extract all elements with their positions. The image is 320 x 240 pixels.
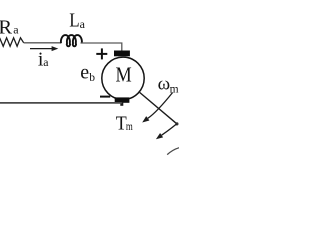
current arrow ia (30, 48, 52, 50)
torque Tm arrow (curved) (162, 124, 177, 135)
terminal stub to bottom wire (120, 102, 123, 106)
svg-text:m: m (126, 121, 133, 133)
motor shaft (140, 92, 177, 123)
resistor Ra (0, 38, 24, 47)
omega_m arrow (curved) (148, 93, 173, 119)
svg-text:a: a (80, 17, 86, 31)
wire (bottom return) (0, 102, 122, 104)
minus sign (100, 96, 110, 98)
svg-text:b: b (89, 72, 95, 84)
svg-text:a: a (43, 55, 49, 69)
svg-text:e: e (80, 62, 89, 84)
brush terminal bottom (115, 97, 130, 102)
motor circle M (102, 57, 144, 99)
load arc (bottom right, cut off) (167, 148, 179, 155)
svg-text:ω: ω (158, 73, 171, 94)
svg-text:R: R (0, 17, 12, 39)
svg-text:a: a (13, 22, 19, 36)
svg-text:M: M (116, 63, 132, 87)
svg-text:L: L (69, 10, 79, 32)
brush terminal top (114, 51, 130, 57)
inductor La (61, 35, 82, 46)
plus sign (101, 48, 103, 59)
wire (resistor to inductor) (24, 42, 61, 44)
shaft end dot (175, 122, 178, 125)
wire (inductor to motor, with corner down) (81, 43, 122, 51)
